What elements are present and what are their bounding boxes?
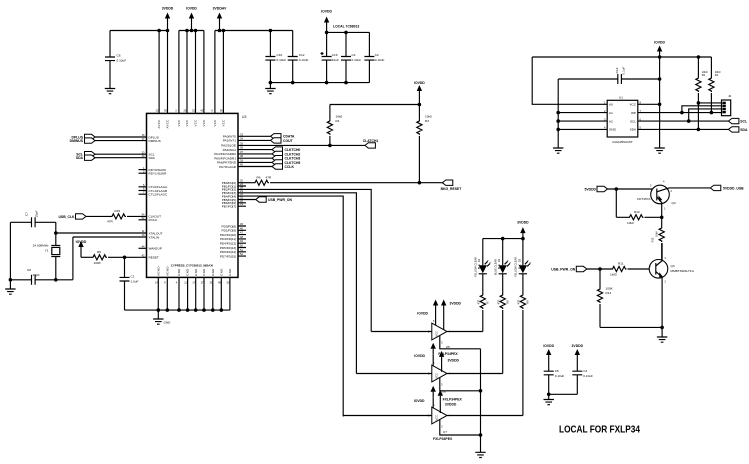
- power 3VDDD U6: [439, 351, 460, 372]
- wire gnd pin U6: [440, 378, 481, 391]
- ground: [265, 83, 275, 94]
- node SDA tag right: [728, 127, 748, 132]
- svg-text:VCC: VCC: [202, 119, 206, 126]
- svg-text:3VDDD: 3VDDD: [445, 403, 457, 407]
- node 5VDDD_USB tag: [710, 185, 744, 190]
- svg-text:AVCC: AVCC: [157, 119, 161, 128]
- svg-text:GND: GND: [228, 268, 232, 275]
- svg-text:3VDDD: 3VDDD: [448, 359, 460, 363]
- node SDA tag left: [76, 155, 95, 160]
- svg-text:BLUE CLEAR: BLUE CLEAR: [494, 259, 498, 275]
- svg-text:PD7/FD[15]: PD7/FD[15]: [220, 254, 236, 258]
- wire U5 output: [447, 331, 483, 333]
- svg-text:SDA: SDA: [149, 156, 156, 160]
- wire local rail: [327, 28, 370, 32]
- wire U5 input: [371, 331, 432, 333]
- ground under C6: [105, 89, 115, 94]
- svg-text:SDA: SDA: [740, 128, 748, 132]
- wire PA5: [238, 157, 272, 159]
- svg-text:WAKEUP: WAKEUP: [149, 247, 162, 251]
- svg-text:R2: R2: [702, 73, 706, 77]
- svg-text:AGND: AGND: [165, 266, 169, 276]
- svg-text:SDA: SDA: [630, 128, 637, 132]
- wire SDA: [95, 157, 147, 159]
- svg-text:1.0uF: 1.0uF: [131, 280, 139, 284]
- wire Q4 collector out: [669, 187, 710, 189]
- wire DPLUS: [95, 136, 147, 138]
- wire U6 output: [447, 373, 503, 375]
- wire xtal top row: [10, 221, 55, 223]
- svg-text:R11: R11: [618, 262, 624, 266]
- wire PB0 to R6: [238, 182, 254, 184]
- node CLKTCH3 tag: [272, 156, 300, 161]
- wire R5 to RESET: [108, 256, 147, 258]
- resistor R8 47R: [497, 274, 510, 374]
- svg-text:0.10uF: 0.10uF: [583, 374, 593, 378]
- capacitor C8 xtal bottom: [27, 268, 40, 285]
- node DMINUS tag: [70, 138, 95, 143]
- svg-text:USB_CLK: USB_CLK: [58, 215, 75, 219]
- svg-text:0.10uF: 0.10uF: [555, 374, 565, 378]
- wire stub RDY1: [139, 172, 147, 174]
- svg-text:R15: R15: [115, 209, 121, 213]
- pin names right column PD: [220, 222, 244, 258]
- svg-text:0.10uF: 0.10uF: [352, 58, 362, 62]
- op-amp U1 24AA256 EEPROM box: [604, 96, 641, 145]
- svg-text:R5: R5: [97, 250, 101, 254]
- wire A1 A2 GND rail: [558, 79, 607, 148]
- wire stub IFCLK: [139, 219, 147, 221]
- power 3VDDD U5: [441, 300, 462, 331]
- svg-text:SCL: SCL: [740, 120, 747, 124]
- power IOVDD: [186, 7, 197, 31]
- wire IOVDD column: [330, 97, 420, 105]
- power 3VDDD: [162, 7, 174, 31]
- wire gnd pin U5: [440, 336, 481, 349]
- node CDATA tag: [271, 134, 295, 139]
- power 3VDDD LEDs: [517, 221, 529, 239]
- svg-text:C7: C7: [25, 212, 29, 216]
- svg-text:SDA: SDA: [76, 156, 84, 160]
- wire left rail to gnd: [9, 222, 11, 279]
- wire USB_CLK to R15: [86, 215, 111, 217]
- resistor R12 10k0: [627, 210, 644, 225]
- wire xtalout row: [56, 232, 147, 234]
- power IOVDD local2: [543, 344, 554, 361]
- svg-text:15pF: 15pF: [32, 273, 39, 277]
- svg-text:10k0: 10k0: [336, 115, 343, 119]
- wire rail3 3VDDHV: [215, 31, 293, 114]
- svg-text:U7: U7: [443, 430, 447, 434]
- svg-text:LOCAL FOR FXLP34: LOCAL FOR FXLP34: [559, 424, 640, 436]
- node DPLUS tag: [72, 134, 96, 139]
- ground eeprom left: [553, 148, 563, 153]
- ground shifters: [475, 452, 485, 457]
- resistor R4 10k0: [709, 57, 721, 113]
- svg-text:C10: C10: [277, 53, 283, 57]
- pin names top AVCC VCC: [156, 109, 226, 129]
- resistor R3 10k0: [417, 105, 432, 183]
- svg-text:MMBT3904LT1G: MMBT3904LT1G: [671, 269, 695, 273]
- crystal Y1 24MHz: [33, 222, 61, 279]
- svg-text:IOVDD: IOVDD: [543, 344, 554, 348]
- wire stub CTL2: [139, 193, 147, 195]
- LED D1 YELLOW CLEAR: [474, 239, 492, 277]
- wire PA7: [238, 166, 272, 168]
- svg-text:0.10uF: 0.10uF: [117, 59, 127, 63]
- wire local caps gnd: [549, 393, 578, 395]
- svg-text:WP: WP: [631, 111, 636, 115]
- svg-text:IFCLK: IFCLK: [149, 218, 159, 222]
- svg-text:IOVDD: IOVDD: [414, 81, 425, 85]
- pin names bottom GND: [155, 266, 232, 284]
- svg-text:VCC: VCC: [629, 103, 636, 107]
- svg-text:BLK D2: BLK D2: [497, 258, 501, 269]
- svg-text:CCLK: CCLK: [285, 165, 295, 169]
- svg-text:47R: 47R: [517, 299, 521, 304]
- svg-text:3VDDD: 3VDDD: [450, 302, 462, 306]
- wire base pull column: [616, 189, 628, 217]
- op-amp U6 FXLP34PEX buffer: [428, 361, 451, 387]
- wire GND pins to rail: [158, 277, 230, 310]
- wire rail2 IOVDD: [179, 31, 204, 114]
- wire J2 pin2 row: [682, 106, 722, 113]
- svg-text:3VDDD: 3VDDD: [162, 7, 174, 11]
- svg-text:AGND: AGND: [156, 266, 160, 276]
- svg-text:BLK D3: BLK D3: [517, 258, 521, 269]
- svg-text:VCC: VCC: [435, 331, 439, 337]
- wire U6 input: [356, 373, 431, 375]
- wire stub PB1 PB6 PB7: [238, 186, 246, 206]
- resistor R9 47R: [517, 274, 530, 416]
- svg-text:FXLP34PEX: FXLP34PEX: [433, 437, 453, 441]
- LED D2 BLUE CLEAR: [494, 239, 512, 275]
- capacitor C7 xtal top: [25, 210, 39, 227]
- svg-text:GND: GND: [194, 268, 198, 275]
- capacitor C6: [105, 31, 126, 89]
- svg-text:C4: C4: [352, 53, 356, 57]
- node: [157, 29, 161, 33]
- wire 5VDDD to Q4: [608, 188, 657, 190]
- svg-text:3VDDD: 3VDDD: [517, 221, 529, 225]
- svg-text:3VDDHV: 3VDDHV: [213, 7, 227, 11]
- wire VCC pin8: [638, 57, 660, 148]
- power IOVDD pullups: [414, 81, 425, 97]
- op-amp U7 FXLP34PEX buffer: [428, 403, 451, 429]
- svg-text:10k0: 10k0: [627, 221, 634, 225]
- svg-text:10k0: 10k0: [655, 231, 659, 237]
- wire stub PD pins: [238, 226, 246, 256]
- wire stub CTL0: [139, 186, 147, 188]
- svg-text:Q3: Q3: [671, 264, 675, 268]
- power 3VDDD U7: [438, 390, 457, 413]
- svg-text:YELLOW CLEAR: YELLOW CLEAR: [514, 257, 518, 277]
- svg-text:GND: GND: [609, 128, 617, 132]
- svg-text:47R: 47R: [266, 176, 272, 180]
- node USB_PWR_ON tag 2: [551, 266, 587, 271]
- capacitor C10: [265, 31, 286, 83]
- power IOVDD local: [321, 10, 332, 29]
- op-amp U3 main IC box: [147, 113, 247, 277]
- svg-text:5VDDD_USB: 5VDDD_USB: [723, 186, 744, 190]
- svg-text:47R: 47R: [107, 220, 113, 224]
- svg-text:R4: R4: [715, 73, 719, 77]
- svg-text:IOVDD: IOVDD: [414, 354, 425, 358]
- resistor R5 100K: [92, 250, 107, 265]
- wire PA2 CLATCH1 row: [238, 144, 365, 146]
- wire gnd rail of caps: [270, 82, 369, 84]
- svg-text:R9: R9: [526, 300, 530, 304]
- wire stub WAKEUP: [139, 247, 147, 249]
- wire AVCC pins: [159, 31, 167, 114]
- svg-text:24AA256AI/ST: 24AA256AI/ST: [612, 140, 633, 144]
- svg-text:DMINUS: DMINUS: [149, 139, 161, 143]
- svg-text:USB_PWR_ON: USB_PWR_ON: [551, 267, 575, 271]
- svg-text:VCC: VCC: [435, 373, 439, 379]
- wire R12 to node: [645, 216, 662, 218]
- svg-text:0.10uF: 0.10uF: [299, 58, 309, 62]
- svg-text:U3: U3: [242, 115, 246, 119]
- svg-text:GND: GND: [164, 321, 172, 325]
- svg-text:Y1: Y1: [45, 249, 49, 253]
- svg-text:USB_PWR_ON: USB_PWR_ON: [268, 198, 292, 202]
- wire J2 pin3 row: [689, 109, 722, 121]
- svg-text:GND: GND: [219, 268, 223, 275]
- wire LED top rail: [483, 238, 523, 240]
- svg-text:U1: U1: [619, 96, 623, 100]
- capacitor C16: [321, 32, 339, 82]
- wire bottom gnd rail: [125, 309, 230, 311]
- svg-text:AVCC: AVCC: [166, 119, 170, 128]
- capacitor C12: [288, 31, 309, 83]
- svg-text:GND: GND: [177, 268, 181, 275]
- svg-text:SCL: SCL: [630, 119, 636, 123]
- wire PA4: [238, 153, 272, 155]
- resistor R13 10k0: [650, 217, 664, 259]
- svg-text:47R: 47R: [477, 299, 481, 304]
- node SCL tag left: [76, 152, 95, 157]
- svg-text:C16: C16: [332, 53, 338, 57]
- capacitor C2: [364, 32, 384, 82]
- wire PA1: [238, 139, 271, 141]
- power IOVDD U6: [414, 343, 436, 366]
- svg-text:FXLP34PEX: FXLP34PEX: [443, 397, 463, 401]
- node COUT tag: [271, 138, 294, 143]
- svg-text:CYPRESS_CY7C68013_56BAXI: CYPRESS_CY7C68013_56BAXI: [171, 264, 213, 268]
- svg-text:0.1uF: 0.1uF: [622, 66, 626, 74]
- svg-text:10uF: 10uF: [332, 58, 339, 62]
- transistor Q4 FDT457A: [637, 179, 676, 217]
- svg-text:R8: R8: [505, 300, 509, 304]
- wire PA0: [238, 135, 271, 137]
- wire SDA row: [638, 128, 729, 130]
- wire PA3: [238, 149, 272, 151]
- node 5VDDD tag: [585, 186, 608, 191]
- svg-text:Q4: Q4: [672, 201, 676, 205]
- svg-text:C6: C6: [117, 54, 121, 58]
- node SCL tag right: [728, 118, 747, 123]
- wire PB2 route to U5: [238, 189, 371, 331]
- svg-text:0.10uF: 0.10uF: [375, 58, 385, 62]
- node CLKTCH2 tag: [272, 151, 300, 156]
- svg-text:XTALIN: XTALIN: [149, 235, 160, 239]
- wire left loop to A0: [532, 57, 607, 104]
- svg-text:100K: 100K: [94, 261, 102, 265]
- svg-text:VCC: VCC: [222, 119, 226, 126]
- svg-text:GND: GND: [211, 268, 215, 275]
- svg-text:VCC: VCC: [435, 415, 439, 421]
- power IOVDD U7: [414, 386, 436, 409]
- power 3VDDHV: [213, 7, 227, 31]
- wire emitter gnd rail: [600, 326, 662, 328]
- svg-text:PA1/INT1: PA1/INT1: [223, 139, 236, 143]
- wire PB4 route to U7: [238, 196, 343, 416]
- svg-text:IOVDD: IOVDD: [321, 10, 332, 14]
- power IOVDD eeprom: [654, 41, 665, 58]
- wire to R11: [587, 268, 612, 270]
- wire rail1 3VDDD: [110, 30, 168, 32]
- op-amp U5 FXLP34PEX buffer: [428, 319, 451, 345]
- power IOVDD reset: [76, 240, 87, 257]
- svg-text:U5: U5: [446, 345, 450, 349]
- wire J2 pin1 row: [698, 102, 721, 104]
- svg-text:BLK D1: BLK D1: [477, 258, 481, 269]
- wire xtal bottom row: [10, 279, 73, 281]
- wire to R5: [81, 256, 92, 258]
- wire gnd pin U7: [440, 420, 481, 436]
- wire DMINUS: [95, 140, 147, 142]
- svg-text:A2: A2: [609, 119, 613, 123]
- transistor Q3 MMBT3904: [649, 243, 694, 327]
- wire R11 to base: [628, 268, 656, 270]
- capacitor C5: [544, 361, 565, 395]
- svg-text:24.000MHz: 24.000MHz: [33, 243, 49, 247]
- svg-text:FDT457A: FDT457A: [637, 197, 651, 201]
- power 3VDDD local2: [572, 344, 584, 361]
- svg-text:1k05: 1k05: [610, 273, 617, 277]
- LED D3 YELLOW CLEAR: [514, 239, 532, 277]
- ground eeprom vcc cap: [654, 148, 664, 153]
- wire BKG_RESET long: [270, 182, 442, 184]
- svg-text:IOVDD: IOVDD: [186, 7, 197, 11]
- capacitor C1: [120, 257, 139, 310]
- svg-text:J2: J2: [728, 94, 732, 98]
- svg-text:R6: R6: [257, 176, 261, 180]
- svg-text:47R: 47R: [497, 299, 501, 304]
- svg-text:A0: A0: [609, 103, 613, 107]
- resistor R2 10k0: [696, 57, 708, 129]
- resistor R14 100K: [597, 269, 613, 327]
- ground local caps: [544, 394, 554, 404]
- svg-text:R7: R7: [485, 300, 489, 304]
- svg-text:IOVDD: IOVDD: [76, 240, 87, 244]
- svg-text:C2: C2: [375, 53, 379, 57]
- wire C13 row: [558, 78, 659, 80]
- wire U7 input: [343, 415, 432, 417]
- node CCLK tag: [272, 164, 294, 169]
- svg-text:C13: C13: [615, 67, 619, 73]
- pin names right column PA: [214, 132, 243, 169]
- resistor R6 47R: [254, 176, 272, 186]
- svg-text:LOCAL 7C68013: LOCAL 7C68013: [333, 25, 359, 29]
- svg-text:VCC: VCC: [185, 119, 189, 126]
- svg-text:5VDDD: 5VDDD: [585, 187, 597, 191]
- svg-text:VCC: VCC: [177, 119, 181, 126]
- svg-text:GND: GND: [202, 268, 206, 275]
- node USB_PWR_ON tag at IC: [256, 197, 293, 202]
- svg-text:R14: R14: [606, 291, 612, 295]
- wire PB3 route to U6: [238, 193, 356, 374]
- capacitor C4: [341, 32, 361, 82]
- svg-text:CTL2/FLAGC: CTL2/FLAGC: [149, 193, 169, 197]
- svg-text:YELLOW CLEAR: YELLOW CLEAR: [474, 257, 478, 277]
- resistor R11 1k05: [610, 262, 627, 277]
- svg-text:BKG_RESET: BKG_RESET: [441, 187, 463, 191]
- svg-text:C3: C3: [583, 369, 587, 373]
- svg-text:IOVDD: IOVDD: [654, 41, 665, 45]
- wire stub CTL1: [139, 190, 147, 192]
- pin names right column PB: [222, 179, 244, 209]
- svg-text:R3: R3: [425, 119, 429, 123]
- svg-text:IOVDD: IOVDD: [417, 312, 428, 316]
- wire eeprom top rail: [532, 56, 711, 58]
- svg-text:A1: A1: [609, 111, 613, 115]
- wire SCL row: [638, 120, 729, 122]
- ground xtal: [5, 280, 15, 294]
- capacitor C3: [572, 361, 593, 395]
- resistor R15: [107, 209, 126, 224]
- node CLATCH1 tag: [363, 139, 379, 148]
- svg-text:C12: C12: [299, 53, 305, 57]
- connector J2: [722, 94, 732, 116]
- power IOVDD U5: [417, 300, 438, 326]
- wire U7 output: [447, 415, 523, 417]
- node BKG_RESET tag: [441, 180, 463, 191]
- wire R15 to CLKOUT: [127, 215, 147, 217]
- wire PA6: [238, 161, 272, 163]
- svg-text:RDY1/SLWR: RDY1/SLWR: [149, 172, 168, 176]
- svg-text:PB7/FD[7]: PB7/FD[7]: [222, 205, 236, 209]
- svg-text:VCC: VCC: [213, 119, 217, 126]
- wire PB5 tag stub: [238, 199, 256, 201]
- ground Q3: [657, 327, 667, 342]
- svg-text:C1: C1: [131, 275, 135, 279]
- resistor R7 47R: [477, 274, 490, 332]
- svg-text:DMINUS: DMINUS: [70, 139, 84, 143]
- svg-text:VCC: VCC: [194, 119, 198, 126]
- svg-text:3VDDD: 3VDDD: [572, 344, 584, 348]
- svg-text:GND: GND: [186, 268, 190, 275]
- wire gnd rail of shifters: [480, 349, 482, 453]
- wire WP row to J2 pin4: [638, 112, 722, 114]
- node USB_CLK tag: [58, 214, 86, 219]
- svg-text:R1: R1: [336, 119, 340, 123]
- svg-text:U6: U6: [442, 389, 446, 393]
- wire SCL: [95, 153, 147, 155]
- resistor R1 10k0: [327, 105, 342, 146]
- capacitor C13: [615, 66, 626, 84]
- svg-text:PA7/FLAGD: PA7/FLAGD: [219, 165, 237, 169]
- node CLKTCH5 tag: [272, 160, 300, 165]
- svg-text:C5: C5: [555, 369, 559, 373]
- svg-text:10k0: 10k0: [425, 115, 432, 119]
- svg-text:0.10uF: 0.10uF: [277, 58, 287, 62]
- pin names left column: [142, 133, 168, 259]
- svg-text:100K: 100K: [606, 287, 614, 291]
- node CLKTCH0 tag: [272, 147, 300, 152]
- svg-text:IOVDD: IOVDD: [414, 399, 425, 403]
- wire stub RDY0: [139, 169, 147, 171]
